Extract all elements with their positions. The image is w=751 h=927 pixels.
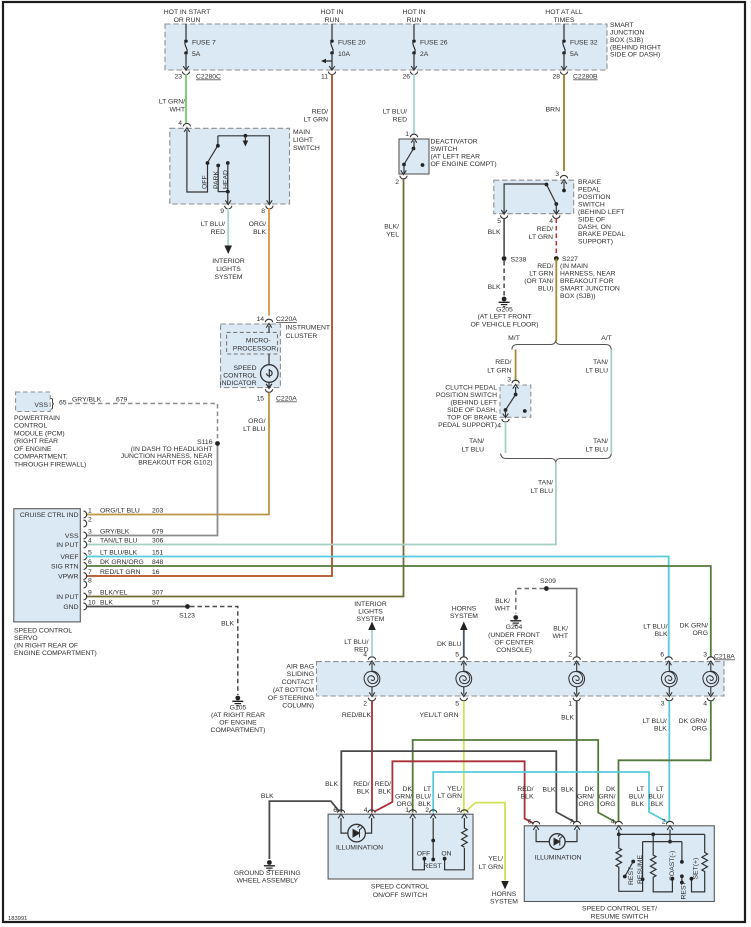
wire LT BLU/BLK on-off pin2 to set-resume pin 2 bbox=[433, 772, 667, 822]
svg-text:2: 2 bbox=[363, 701, 367, 708]
svg-text:REST: REST bbox=[423, 863, 441, 870]
wire TAN/LT BLU clutch pin4 down bbox=[505, 422, 507, 453]
wire BLK dashed S123 to G105 bbox=[190, 607, 238, 696]
svg-text:OFF: OFF bbox=[202, 175, 209, 189]
svg-text:OFF: OFF bbox=[417, 851, 431, 858]
svg-text:SYSTEM: SYSTEM bbox=[450, 613, 478, 620]
svg-text:SIDE OF DASH): SIDE OF DASH) bbox=[610, 52, 660, 59]
resistor R2 (coast) bbox=[650, 834, 672, 892]
wire TAN/LT BLU trunk to servo row 4 bbox=[86, 463, 556, 545]
air bag top pin 6 bbox=[665, 657, 672, 666]
microprocessor box bbox=[227, 332, 278, 354]
svg-text:DK BLU: DK BLU bbox=[437, 641, 462, 648]
resume contact riser to pin2 rail bbox=[642, 842, 644, 880]
svg-text:PROCESSOR: PROCESSOR bbox=[233, 345, 277, 352]
air bag coil 3 bbox=[569, 671, 585, 687]
svg-text:BLK: BLK bbox=[261, 793, 274, 800]
svg-text:848: 848 bbox=[152, 559, 164, 566]
svg-text:RED/: RED/ bbox=[537, 226, 553, 233]
svg-text:SMART: SMART bbox=[610, 22, 634, 29]
svg-text:4: 4 bbox=[88, 538, 92, 545]
wire BLK ground steering wheel to on-off pin 6 bbox=[269, 801, 339, 859]
on-off illumination lamp bbox=[341, 818, 348, 833]
splice S123 bbox=[185, 604, 190, 609]
svg-text:2: 2 bbox=[425, 807, 429, 814]
wire RED/LT GRN (OR TAN/BLU) S227 to M/T A/T brace bbox=[555, 259, 557, 342]
svg-text:WHEEL ASSEMBLY: WHEEL ASSEMBLY bbox=[237, 878, 299, 885]
svg-text:3: 3 bbox=[88, 529, 92, 536]
svg-text:DEACTIVATOR: DEACTIVATOR bbox=[431, 139, 478, 146]
svg-text:LT BLU/: LT BLU/ bbox=[201, 221, 225, 228]
svg-text:65: 65 bbox=[59, 400, 67, 407]
svg-text:RED/: RED/ bbox=[495, 359, 511, 366]
svg-text:DK: DK bbox=[606, 786, 616, 793]
svg-text:ORG: ORG bbox=[692, 726, 707, 733]
svg-text:6: 6 bbox=[528, 819, 532, 826]
wire BRN fuse32 to brake pedal position switch pin 3 bbox=[563, 74, 565, 171]
svg-text:8: 8 bbox=[261, 208, 265, 215]
svg-text:RED/BLK: RED/BLK bbox=[342, 712, 372, 719]
on-off switch ON contact and resistor to pin 3 bbox=[443, 857, 447, 861]
svg-text:FUSE 32: FUSE 32 bbox=[570, 40, 598, 47]
air bag sliding contact box bbox=[317, 662, 725, 696]
set-resume pin 4 bbox=[615, 821, 622, 830]
svg-text:5A: 5A bbox=[192, 51, 201, 58]
svg-text:9: 9 bbox=[88, 590, 92, 597]
svg-text:C220A: C220A bbox=[276, 316, 297, 323]
svg-text:CONTACT: CONTACT bbox=[282, 679, 314, 686]
svg-text:YEL/: YEL/ bbox=[488, 856, 503, 863]
svg-text:SIDE OF: SIDE OF bbox=[578, 216, 605, 223]
svg-text:LT BLU/: LT BLU/ bbox=[344, 639, 368, 646]
svg-text:TOP OF BRAKE: TOP OF BRAKE bbox=[447, 415, 497, 422]
svg-text:POSITION: POSITION bbox=[578, 194, 611, 201]
resistor R3 (set) bbox=[692, 834, 708, 892]
wire GRY/BLK dashed VSS to S116 bbox=[68, 404, 218, 442]
svg-text:VPWR: VPWR bbox=[58, 574, 78, 581]
wire BLK on-off pin6 to set-resume pin 7 bbox=[341, 751, 574, 822]
svg-text:LT BLU: LT BLU bbox=[531, 488, 554, 495]
svg-text:BRN: BRN bbox=[546, 107, 560, 114]
svg-text:RED/LT GRN: RED/LT GRN bbox=[100, 569, 141, 576]
servo pin 1 bbox=[84, 511, 87, 518]
svg-text:5: 5 bbox=[455, 652, 459, 659]
svg-text:LT: LT bbox=[637, 786, 644, 793]
svg-text:2: 2 bbox=[568, 652, 572, 659]
svg-text:679: 679 bbox=[152, 529, 164, 536]
svg-text:RED/: RED/ bbox=[353, 781, 369, 788]
air bag bottom pin 2 bbox=[368, 692, 375, 701]
wire DK BLU air bag pin5 to horns system bbox=[463, 629, 465, 657]
svg-text:SERVO: SERVO bbox=[14, 635, 38, 642]
svg-text:PARK: PARK bbox=[213, 171, 220, 189]
pin 4 brake switch bbox=[553, 210, 560, 219]
svg-text:1: 1 bbox=[568, 701, 572, 708]
wire BLK/WHT S209 to air bag pin 2 bbox=[549, 589, 577, 657]
set-resume pin 6 bbox=[533, 821, 540, 830]
svg-text:2: 2 bbox=[88, 517, 92, 524]
svg-text:3: 3 bbox=[703, 652, 707, 659]
svg-text:RED: RED bbox=[393, 117, 407, 124]
svg-text:4: 4 bbox=[497, 423, 501, 430]
pin 8 main light switch bbox=[266, 200, 273, 209]
svg-text:DK: DK bbox=[403, 786, 413, 793]
svg-text:BLK: BLK bbox=[221, 621, 234, 628]
svg-text:BRAKE: BRAKE bbox=[578, 179, 602, 186]
svg-text:OR RUN: OR RUN bbox=[174, 17, 201, 24]
pin 5 brake switch bbox=[501, 210, 508, 219]
resistor in on-off switch bbox=[462, 818, 468, 847]
deactivator internal contacts bbox=[413, 141, 415, 147]
brake pedal position switch box bbox=[494, 180, 574, 214]
svg-text:RED/: RED/ bbox=[375, 781, 391, 788]
speed control indicator lamp bbox=[268, 354, 270, 365]
air bag coil 4 bbox=[661, 671, 677, 687]
svg-text:VSS: VSS bbox=[65, 533, 79, 540]
wire feed into fuse 32 bbox=[563, 24, 565, 39]
svg-text:26: 26 bbox=[402, 74, 410, 81]
svg-text:C220A: C220A bbox=[276, 396, 297, 403]
svg-text:BLK: BLK bbox=[561, 787, 574, 794]
svg-text:5: 5 bbox=[88, 550, 92, 557]
ground G204 bbox=[510, 615, 521, 626]
svg-text:ORG/: ORG/ bbox=[249, 221, 266, 228]
ground G105 bbox=[232, 696, 243, 707]
main light switch box bbox=[170, 128, 290, 204]
svg-text:3: 3 bbox=[661, 701, 665, 708]
brake switch internal contacts bbox=[563, 182, 565, 189]
svg-text:(UNDER FRONT: (UNDER FRONT bbox=[488, 632, 540, 639]
svg-text:TAN/: TAN/ bbox=[593, 359, 608, 366]
svg-text:VSS: VSS bbox=[34, 402, 48, 409]
top grouping brace bbox=[512, 341, 612, 349]
svg-text:OF CENTER: OF CENTER bbox=[494, 640, 533, 647]
wire YEL/LT GRN on-off pin3 to horns system bbox=[466, 803, 505, 881]
svg-text:679: 679 bbox=[116, 397, 128, 404]
svg-text:GND: GND bbox=[63, 604, 78, 611]
svg-text:CLUSTER: CLUSTER bbox=[286, 333, 318, 340]
svg-text:BLK: BLK bbox=[378, 789, 391, 796]
wire LT BLU/RED pin9 to interior lights system bbox=[227, 208, 229, 246]
fuse F7 bbox=[184, 39, 188, 55]
pin 11 bbox=[328, 66, 335, 75]
svg-text:(BEHIND LEFT: (BEHIND LEFT bbox=[451, 400, 497, 407]
svg-text:RED/: RED/ bbox=[312, 109, 328, 116]
fuse F20 bbox=[330, 39, 334, 55]
servo pin 5 bbox=[84, 553, 87, 560]
svg-text:CLUTCH PEDAL: CLUTCH PEDAL bbox=[445, 385, 497, 392]
svg-text:S227: S227 bbox=[562, 256, 578, 263]
air bag top pin 4 bbox=[368, 657, 375, 666]
main light switch internal wiring bbox=[187, 130, 208, 192]
on-off switch pin 2 bbox=[430, 810, 437, 819]
resume switch arm bbox=[631, 860, 635, 864]
svg-text:RUN: RUN bbox=[325, 17, 340, 24]
svg-text:6: 6 bbox=[333, 807, 337, 814]
wire RED/LT GRN fuse20 down to servo row7 (VPWR) bbox=[86, 74, 332, 576]
wire DK GRN/ORG air bag pin4 to set-resume switch pin 4 bbox=[619, 701, 711, 822]
pin 1 deactivator bbox=[410, 134, 417, 143]
wire BLK/WHT dashed S209 to G204 bbox=[516, 589, 544, 614]
svg-text:ILLUMINATION: ILLUMINATION bbox=[534, 855, 581, 862]
pin 26 bbox=[410, 66, 417, 75]
svg-text:1: 1 bbox=[88, 508, 92, 515]
svg-text:A/T: A/T bbox=[601, 335, 612, 342]
on-off switch pin 6 bbox=[337, 810, 344, 819]
wire feed into fuse 20 bbox=[331, 24, 333, 39]
servo pin 10 bbox=[84, 603, 87, 610]
svg-text:(IN RIGHT REAR OF: (IN RIGHT REAR OF bbox=[14, 643, 78, 650]
svg-text:REST: REST bbox=[680, 881, 687, 899]
svg-text:HOT IN START: HOT IN START bbox=[164, 9, 210, 16]
svg-text:ON/OFF SWITCH: ON/OFF SWITCH bbox=[373, 892, 427, 899]
wire RED/LT GRN dashed brake pin4 to splice S227 bbox=[555, 219, 557, 257]
wire GRY/BLK S116 to servo row 3 bbox=[86, 446, 218, 536]
powertrain control module VSS box bbox=[16, 392, 51, 412]
svg-text:4: 4 bbox=[549, 218, 553, 225]
on-off switch pin 1 bbox=[409, 810, 416, 819]
svg-text:BLK: BLK bbox=[521, 794, 534, 801]
stub pin14 to microprocessor bbox=[268, 326, 270, 332]
svg-text:MAIN: MAIN bbox=[293, 129, 310, 136]
svg-text:15: 15 bbox=[256, 396, 264, 403]
svg-text:HOT IN: HOT IN bbox=[403, 9, 426, 16]
svg-text:10: 10 bbox=[88, 600, 96, 607]
instrument cluster box bbox=[221, 324, 281, 388]
wire ORG/LT BLU cluster pin15 to servo row 1 bbox=[86, 393, 269, 515]
pin 2 deactivator bbox=[400, 170, 407, 179]
deactivator switch box bbox=[399, 139, 429, 174]
svg-text:BLU/: BLU/ bbox=[648, 794, 663, 801]
svg-text:WHT: WHT bbox=[553, 633, 568, 640]
svg-text:BLU/: BLU/ bbox=[416, 794, 431, 801]
svg-text:LT BLU/: LT BLU/ bbox=[642, 718, 666, 725]
svg-text:23: 23 bbox=[174, 74, 182, 81]
wire BLK dashed S238 to G205 bbox=[503, 261, 505, 296]
svg-text:LT GRN: LT GRN bbox=[438, 793, 462, 800]
ground steering wheel assembly bbox=[264, 860, 275, 871]
on-off switch REST arm from pin 2 bbox=[432, 818, 434, 839]
svg-text:(AT RIGHT REAR: (AT RIGHT REAR bbox=[211, 712, 265, 719]
svg-text:11: 11 bbox=[321, 74, 328, 81]
svg-text:SET(+): SET(+) bbox=[692, 858, 699, 880]
svg-text:BLK: BLK bbox=[488, 229, 501, 236]
svg-text:AIR BAG: AIR BAG bbox=[286, 664, 314, 671]
fuse F26 bbox=[412, 39, 416, 55]
speed control set/resume switch box bbox=[524, 826, 714, 902]
svg-text:SMART JUNCTION: SMART JUNCTION bbox=[560, 285, 620, 292]
wire LT BLU/RED fuse26 to deactivator switch pin 1 bbox=[413, 74, 415, 134]
svg-text:BLK/: BLK/ bbox=[553, 626, 568, 633]
wire ORG/BLK pin8 to instrument cluster pin 14 bbox=[268, 208, 270, 316]
svg-text:RED/: RED/ bbox=[537, 263, 553, 270]
svg-text:(AT LEFT FRONT: (AT LEFT FRONT bbox=[478, 314, 532, 321]
speed control servo box bbox=[14, 509, 81, 622]
svg-text:INTERIOR: INTERIOR bbox=[212, 258, 245, 265]
svg-text:BLU): BLU) bbox=[538, 285, 554, 292]
svg-text:ENGINE COMPARTMENT): ENGINE COMPARTMENT) bbox=[14, 650, 97, 657]
svg-text:JUNCTION: JUNCTION bbox=[610, 29, 644, 36]
set-resume pin 2 bbox=[666, 821, 673, 830]
wire feed into fuse 26 bbox=[413, 24, 415, 39]
svg-text:4: 4 bbox=[178, 120, 182, 127]
svg-text:GRY/BLK: GRY/BLK bbox=[72, 397, 102, 404]
servo pin 4 bbox=[84, 541, 87, 548]
svg-text:ORG/: ORG/ bbox=[248, 418, 265, 425]
svg-text:1: 1 bbox=[405, 807, 409, 814]
svg-text:OF STEERING: OF STEERING bbox=[268, 695, 314, 702]
svg-text:SIDE OF DASH,: SIDE OF DASH, bbox=[447, 407, 497, 414]
svg-text:ORG: ORG bbox=[693, 630, 708, 637]
svg-text:REST: REST bbox=[628, 867, 635, 885]
servo pin 6 bbox=[84, 563, 87, 570]
svg-text:SPEED CONTROL SET/: SPEED CONTROL SET/ bbox=[582, 906, 657, 913]
svg-text:(AT LEFT REAR: (AT LEFT REAR bbox=[431, 154, 481, 161]
svg-text:SPEED CONTROL: SPEED CONTROL bbox=[14, 628, 72, 635]
wire BLK air bag pin1 to set-resume switch pin 7 bbox=[576, 701, 578, 822]
svg-text:LT: LT bbox=[656, 786, 663, 793]
svg-text:BLK/: BLK/ bbox=[495, 598, 510, 605]
svg-text:ON: ON bbox=[441, 851, 451, 858]
svg-text:PEDAL SUPPORT): PEDAL SUPPORT) bbox=[438, 422, 497, 429]
ground G205 bbox=[499, 297, 510, 308]
wire LT BLU/BLK air bag pin3 to set-resume switch pin 2 bbox=[668, 701, 670, 822]
svg-text:5: 5 bbox=[455, 701, 459, 708]
svg-text:M/T: M/T bbox=[508, 335, 520, 342]
svg-text:DK GRN/: DK GRN/ bbox=[680, 623, 708, 630]
air bag bottom pin 4 bbox=[707, 692, 714, 701]
svg-text:BLK/YEL: BLK/YEL bbox=[100, 590, 128, 597]
svg-text:COAST(-): COAST(-) bbox=[669, 851, 676, 881]
svg-text:LT BLU: LT BLU bbox=[586, 368, 609, 375]
svg-text:LT BLU: LT BLU bbox=[462, 447, 485, 454]
svg-text:GRN/: GRN/ bbox=[599, 794, 616, 801]
pin 4 clutch switch bbox=[502, 414, 509, 423]
svg-text:G204: G204 bbox=[506, 624, 523, 631]
svg-text:LT BLU: LT BLU bbox=[243, 426, 266, 433]
svg-text:3: 3 bbox=[457, 807, 461, 814]
svg-text:G205: G205 bbox=[496, 307, 513, 314]
svg-text:2: 2 bbox=[395, 179, 399, 186]
wire BLK/YEL deactivator pin2 down to servo row 9 bbox=[86, 179, 404, 597]
splice S227 bbox=[554, 256, 559, 261]
wire TAN/LT BLU A/T branch bbox=[610, 350, 612, 454]
servo pin 3 bbox=[84, 532, 87, 539]
svg-text:BLK: BLK bbox=[561, 715, 574, 722]
wire BLK servo row10 to splice S123 bbox=[86, 606, 186, 608]
svg-text:(BEHIND RIGHT: (BEHIND RIGHT bbox=[610, 44, 661, 51]
svg-text:SWITCH: SWITCH bbox=[431, 146, 458, 153]
svg-text:57: 57 bbox=[152, 600, 160, 607]
pin 28 connector C2280B bbox=[560, 66, 567, 75]
svg-text:5: 5 bbox=[497, 218, 501, 225]
wire RED/BLK air bag pin2 to on-off switch pin 4 bbox=[371, 701, 373, 813]
svg-text:HARNESS, NEAR: HARNESS, NEAR bbox=[560, 271, 616, 278]
set-resume pin 4 rail bbox=[618, 830, 620, 835]
svg-text:BLK: BLK bbox=[654, 726, 667, 733]
svg-text:LT GRN: LT GRN bbox=[529, 271, 553, 278]
splice S116 bbox=[215, 441, 220, 446]
svg-text:307: 307 bbox=[152, 590, 164, 597]
svg-text:HOT AT ALL: HOT AT ALL bbox=[545, 9, 583, 16]
arrow to interior lights system bbox=[224, 246, 232, 255]
svg-text:C2280C: C2280C bbox=[196, 74, 221, 81]
wire feed into fuse 7 bbox=[185, 24, 187, 39]
on-off switch pin 4 bbox=[368, 810, 375, 819]
svg-text:PEDAL: PEDAL bbox=[578, 187, 601, 194]
svg-text:IN PUT: IN PUT bbox=[56, 594, 78, 601]
svg-text:5A: 5A bbox=[570, 51, 579, 58]
svg-text:RESUME SWITCH: RESUME SWITCH bbox=[591, 914, 649, 921]
on-off switch OFF contact branch from pin 1 bbox=[413, 818, 425, 870]
svg-text:SLIDING: SLIDING bbox=[287, 671, 314, 678]
air bag top pin 2 bbox=[573, 657, 580, 666]
pin 3 brake switch bbox=[560, 175, 567, 184]
svg-text:FUSE 20: FUSE 20 bbox=[338, 40, 366, 47]
pin 14 connector C220A bbox=[265, 319, 272, 328]
svg-text:CONTROL: CONTROL bbox=[14, 423, 47, 430]
svg-text:4: 4 bbox=[703, 701, 707, 708]
svg-text:28: 28 bbox=[552, 74, 560, 81]
svg-text:(AT BOTTOM: (AT BOTTOM bbox=[273, 687, 314, 694]
air bag bottom pin 5 bbox=[460, 692, 467, 701]
svg-text:BLK: BLK bbox=[100, 600, 113, 607]
svg-text:BLK: BLK bbox=[543, 787, 556, 794]
svg-text:DASH, ON: DASH, ON bbox=[578, 224, 611, 231]
svg-text:TAN/: TAN/ bbox=[538, 480, 553, 487]
svg-text:LT BLU/: LT BLU/ bbox=[643, 624, 667, 631]
wire LT BLU/BLK servo row5 to air bag pin 6 bbox=[86, 557, 669, 658]
svg-text:S238: S238 bbox=[511, 257, 527, 264]
smart junction box (SJB) fuse panel bbox=[165, 24, 607, 70]
svg-text:SPEED: SPEED bbox=[233, 365, 256, 372]
speed control on/off switch box bbox=[328, 814, 473, 879]
svg-text:10A: 10A bbox=[338, 51, 351, 58]
svg-text:BLK: BLK bbox=[655, 631, 668, 638]
svg-text:HOT IN: HOT IN bbox=[321, 9, 344, 16]
svg-text:GRN/: GRN/ bbox=[395, 794, 412, 801]
svg-text:YEL/: YEL/ bbox=[447, 786, 462, 793]
svg-text:S209: S209 bbox=[540, 578, 556, 585]
servo pin 7 bbox=[84, 573, 87, 580]
svg-text:DK GRN/: DK GRN/ bbox=[679, 718, 707, 725]
set-resume illumination lamp bbox=[536, 830, 549, 842]
svg-text:3: 3 bbox=[555, 171, 559, 178]
wire RED/BLK on-off pin4 to set-resume pin 6 bbox=[375, 761, 534, 823]
svg-text:POWERTRAIN: POWERTRAIN bbox=[14, 415, 60, 422]
svg-text:MODULE (PCM): MODULE (PCM) bbox=[14, 430, 65, 437]
svg-text:WHT: WHT bbox=[495, 606, 510, 613]
air bag top pin 3 bbox=[707, 657, 714, 666]
svg-text:LIGHTS: LIGHTS bbox=[358, 609, 383, 616]
svg-text:LT GRN: LT GRN bbox=[304, 117, 328, 124]
splice S238 bbox=[502, 256, 507, 261]
air bag bottom pin 3 bbox=[666, 692, 673, 701]
svg-text:(RIGHT REAR: (RIGHT REAR bbox=[14, 438, 58, 445]
svg-text:SWITCH: SWITCH bbox=[578, 201, 605, 208]
branch arrow on fuse 20 output bbox=[325, 60, 332, 62]
svg-text:BRAKE PEDAL: BRAKE PEDAL bbox=[578, 231, 625, 238]
svg-text:OF ENGINE: OF ENGINE bbox=[219, 720, 257, 727]
svg-text:BREAKOUT FOR G102): BREAKOUT FOR G102) bbox=[138, 460, 212, 467]
svg-text:C218A: C218A bbox=[714, 654, 735, 661]
svg-text:LT BLU/BLK: LT BLU/BLK bbox=[100, 550, 138, 557]
svg-text:GROUND STEERING: GROUND STEERING bbox=[234, 870, 301, 877]
svg-text:LT: LT bbox=[424, 786, 431, 793]
svg-text:7: 7 bbox=[569, 819, 573, 826]
pin 23 connector C2280C bbox=[182, 66, 189, 75]
svg-text:SUPPORT): SUPPORT) bbox=[578, 239, 613, 246]
